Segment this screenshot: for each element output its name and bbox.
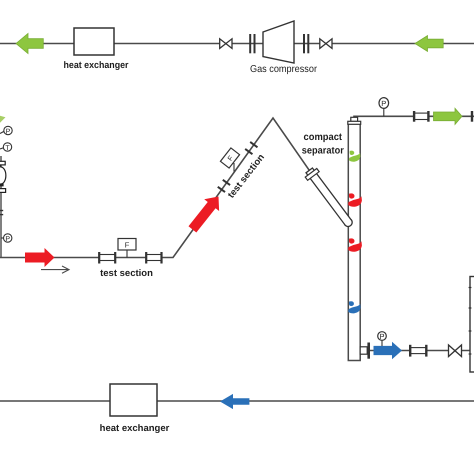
flange pair (compressor outlet) [303,34,305,53]
red chevron arrow in column (lower) [348,238,362,251]
gauge P (bottom branch) [381,341,383,347]
flange pair on diagonal (upper) [245,142,257,154]
wire mid test-section line [0,118,311,258]
compact separator inclined tube [303,166,356,230]
gauge P (column top) [383,109,385,117]
left instrument header vertical wire [0,156,2,258]
flange tick at right edge [471,111,473,122]
blue chevron arrow in column [348,301,360,313]
red flow arrow (mid, pointing right) [25,248,55,267]
svg-text:separator: separator [302,145,344,156]
green chevron arrow in column [349,151,360,162]
thin flow direction arrow [41,269,68,271]
column bottom outlet spool [360,347,367,354]
valve V2 [320,39,332,49]
flange spool pair (test section outlet) [146,255,162,261]
wire bottom main line [0,400,474,402]
svg-text:P: P [379,332,384,341]
rotated instrument box F on diagonal [233,163,235,172]
svg-text:Gas compressor: Gas compressor [250,64,318,75]
svg-text:P: P [381,99,386,108]
flange ticks on left header [0,210,3,212]
blue flow arrow (pointing right) [374,342,403,360]
valve V1 [220,39,232,49]
flange pair (compressor inlet) [249,34,251,53]
wire separator top line [354,116,474,122]
svg-text:compact: compact [304,132,343,143]
valve V3 [449,345,462,357]
svg-text:F: F [125,241,130,250]
svg-text:T: T [5,145,10,152]
gas compressor U1 [263,21,294,63]
flange pair on diagonal (lower) [218,180,230,192]
wire separator bottom branch [360,350,470,352]
column top cap [351,117,358,121]
red chevron arrow in column (upper) [348,193,362,206]
blue flow arrow (bottom, pointing left) [220,394,249,409]
storage vessel at right edge [470,277,474,373]
instrument box F [126,250,128,258]
green flow arrow (top right, pointing left) [415,36,443,52]
heat exchanger (bottom) [110,384,157,416]
green flow arrow (top left, pointing left) [16,34,43,54]
flange spool pair (top right line) [414,113,428,119]
flange spool pair (test section inlet) [99,255,115,261]
flange tick at column outlet [367,343,370,359]
green arrow fragment at left edge [0,116,6,123]
svg-text:P: P [5,236,10,243]
gauge P (left top) [0,131,5,134]
green flow arrow (right, pointing right) [434,108,463,124]
flange spool pair (bottom branch) [410,348,426,354]
separator column pipe [348,124,360,361]
heat exchanger (top) [74,28,114,55]
gauge P (left lower) [1,237,4,239]
svg-text:P: P [6,128,11,135]
pump (left edge, partially cropped) [0,161,5,165]
svg-text:heat exchanger: heat exchanger [100,423,170,434]
gauge T (left) [0,148,4,149]
red flow arrow on diagonal (pointing up-right) [185,191,226,236]
wire top main line [0,43,474,45]
svg-text:test section: test section [100,268,153,279]
svg-text:heat exchanger: heat exchanger [64,60,129,71]
rotated label: test section [226,152,267,201]
